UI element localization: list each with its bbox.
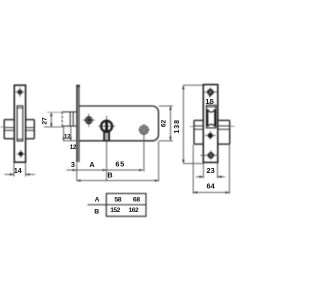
svg-text:152: 152	[110, 207, 120, 214]
svg-text:B: B	[107, 171, 112, 180]
bolt slot	[17, 106, 23, 141]
dim 27	[44, 112, 64, 127]
dimension labels	[14, 97, 216, 216]
screw top-right	[204, 87, 218, 97]
svg-text:12: 12	[64, 134, 71, 141]
svg-text:62: 62	[160, 120, 167, 128]
nut housing box left of faceplate	[62, 112, 76, 126]
case box (edge view)	[4, 120, 34, 139]
dim 15	[209, 93, 211, 96]
svg-text:12: 12	[70, 144, 77, 151]
svg-text:3: 3	[71, 160, 75, 169]
faceplate (edge, thick)	[76, 85, 78, 162]
svg-text:A: A	[95, 197, 100, 204]
case axis ticks	[190, 126, 194, 128]
dim B	[77, 180, 159, 182]
svg-text:B: B	[94, 208, 99, 215]
euro cylinder	[98, 116, 115, 141]
strip (front face)	[203, 85, 218, 163]
dim 14	[5, 163, 36, 177]
svg-text:68: 68	[133, 197, 140, 204]
screw top-left	[15, 87, 24, 96]
fixing screw in body	[83, 114, 95, 127]
svg-text:138: 138	[174, 119, 181, 133]
svg-text:14: 14	[14, 168, 22, 175]
svg-text:162: 162	[129, 207, 139, 214]
roller	[208, 109, 216, 126]
dim 62 (right of body)	[159, 106, 173, 141]
follower (square spindle hub)	[139, 124, 150, 135]
roller slot	[206, 105, 216, 128]
dim 12/12 left	[63, 126, 76, 141]
case box (edge view)	[194, 120, 230, 144]
dim 64	[193, 145, 229, 194]
screw bottom-left	[17, 150, 25, 158]
dim 23	[196, 163, 225, 178]
dim 138	[183, 85, 203, 163]
svg-text:15: 15	[205, 97, 214, 106]
svg-text:27: 27	[41, 117, 48, 125]
svg-text:23: 23	[207, 166, 215, 175]
faceplate strip (front view)	[14, 85, 25, 162]
screw bottom-right	[201, 150, 219, 160]
svg-text:65: 65	[115, 159, 125, 168]
lock body outline	[79, 106, 159, 141]
svg-text:64: 64	[207, 182, 216, 191]
bottom dims 3 A 65	[66, 135, 158, 181]
case axis tick left	[0, 126, 4, 128]
svg-text:58: 58	[114, 197, 121, 204]
screw mid-right	[205, 131, 216, 140]
svg-text:A: A	[89, 160, 95, 169]
